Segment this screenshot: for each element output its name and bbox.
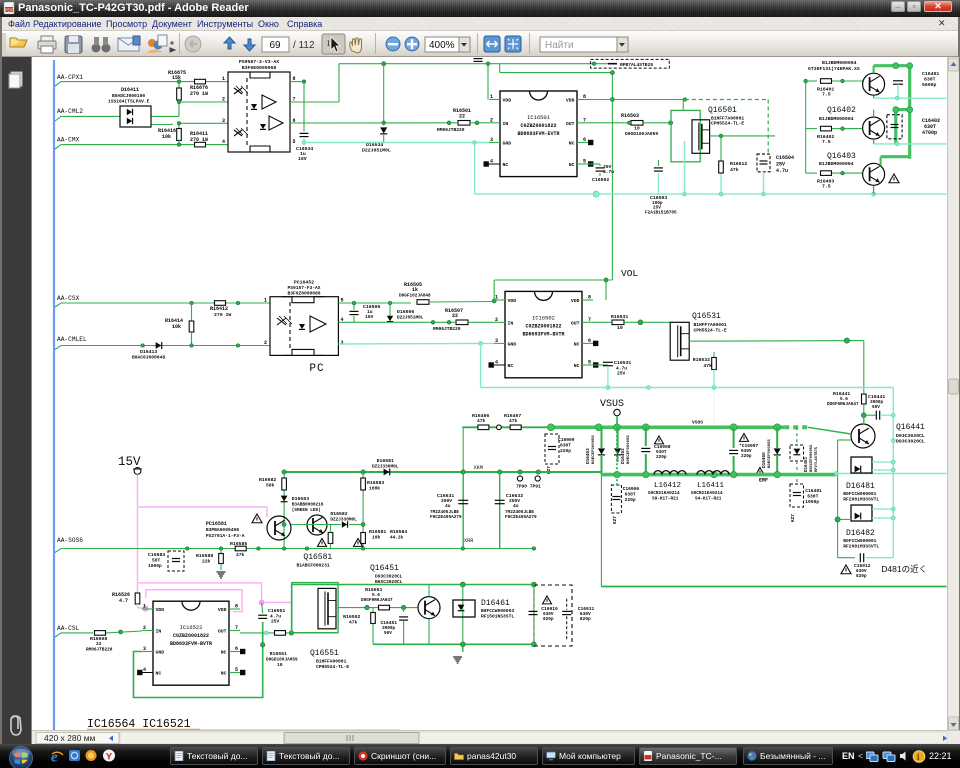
svg-text:47k: 47k xyxy=(349,620,358,626)
svg-text:7: 7 xyxy=(235,625,238,631)
svg-text:25V: 25V xyxy=(617,371,626,377)
svg-text:44.2k: 44.2k xyxy=(390,536,404,541)
svg-text:B6XC3020CL: B6XC3020CL xyxy=(375,579,403,585)
svg-text:IC16501: IC16501 xyxy=(527,115,550,121)
svg-text:GND: GND xyxy=(503,141,512,147)
svg-text:Найти: Найти xyxy=(545,40,574,51)
svg-text:D16411: D16411 xyxy=(121,87,139,93)
svg-text:7.5: 7.5 xyxy=(822,184,831,190)
svg-text:CPH5524-TL-E: CPH5524-TL-E xyxy=(711,121,744,127)
svg-text:D16481: D16481 xyxy=(846,482,875,491)
svg-text:D16581: D16581 xyxy=(377,458,394,464)
svg-text:4.7: 4.7 xyxy=(119,598,128,604)
svg-text:Y: Y xyxy=(106,752,113,763)
svg-text:B3PBA0000498: B3PBA0000498 xyxy=(206,527,239,533)
svg-text:8: 8 xyxy=(583,94,586,100)
svg-text:5600p: 5600p xyxy=(922,82,937,88)
svg-text:1: 1 xyxy=(222,76,225,82)
svg-text:630T: 630T xyxy=(807,494,818,500)
svg-text:4: 4 xyxy=(495,360,498,366)
svg-text:D22J051M0L: D22J051M0L xyxy=(397,316,424,321)
svg-text:B0FCCW000003: B0FCCW000003 xyxy=(481,608,514,614)
svg-text:22: 22 xyxy=(459,114,465,120)
svg-text:B1JBDM000004: B1JBDM000004 xyxy=(819,161,854,167)
svg-text:RPB7AL4STB25: RPB7AL4STB25 xyxy=(620,62,653,68)
svg-text:I: I xyxy=(327,39,330,48)
svg-text:5: 5 xyxy=(235,667,238,673)
svg-text:10k: 10k xyxy=(172,324,181,330)
svg-text:IC16564 IC16521: IC16564 IC16521 xyxy=(87,718,191,730)
svg-text:B0ECEF000055: B0ECEF000055 xyxy=(810,444,814,472)
svg-text:D0GD100JA059: D0GD100JA059 xyxy=(625,131,658,137)
svg-text:CPH5524-TL-E: CPH5524-TL-E xyxy=(694,328,727,334)
svg-text:270 1W: 270 1W xyxy=(190,91,208,97)
svg-text:1: 1 xyxy=(143,604,146,610)
svg-text:OUT: OUT xyxy=(218,629,227,635)
svg-text:VDD: VDD xyxy=(218,607,227,613)
svg-text:R16581: R16581 xyxy=(369,529,386,535)
svg-text:D93C3020CL: D93C3020CL xyxy=(896,439,925,445)
svg-text:R16582: R16582 xyxy=(259,477,276,483)
svg-text:25V: 25V xyxy=(776,162,785,168)
svg-text:B0ECEF000055: B0ECEF000055 xyxy=(768,439,772,468)
svg-text:Q16402: Q16402 xyxy=(827,106,856,115)
svg-text:D481の近く: D481の近く xyxy=(881,564,927,574)
svg-text:6: 6 xyxy=(588,338,591,344)
svg-text:VSUS: VSUS xyxy=(692,420,703,426)
svg-text:50T: 50T xyxy=(152,558,161,564)
svg-text:R16532: R16532 xyxy=(693,357,710,363)
svg-text:AA-SOS6: AA-SOS6 xyxy=(57,537,83,544)
svg-text:C16909: C16909 xyxy=(558,437,575,443)
svg-text:NC: NC xyxy=(574,363,580,369)
svg-text:G0CR21KA0214: G0CR21KA0214 xyxy=(691,491,723,496)
svg-text:S4-K17-R21: S4-K17-R21 xyxy=(695,497,722,502)
svg-text:PS2701A-1-F3-A: PS2701A-1-F3-A xyxy=(206,533,245,539)
svg-text:AA-CSL: AA-CSL xyxy=(57,625,80,632)
svg-text:D16506: D16506 xyxy=(397,309,414,315)
svg-text:7P90 7P91: 7P90 7P91 xyxy=(516,484,541,490)
svg-text:Q16531: Q16531 xyxy=(692,312,721,321)
svg-text:(GREEN LED): (GREEN LED) xyxy=(292,508,321,513)
svg-text:220p: 220p xyxy=(656,455,667,460)
svg-text:4: 4 xyxy=(490,159,493,165)
svg-text:820p: 820p xyxy=(856,574,867,579)
svg-text:R16588: R16588 xyxy=(196,553,213,559)
svg-text:AA-CMLEL: AA-CMLEL xyxy=(57,336,87,343)
svg-text:AA-CSX: AA-CSX xyxy=(57,295,80,302)
svg-text:NC: NC xyxy=(221,671,227,677)
svg-text:DZ2J330M0L: DZ2J330M0L xyxy=(372,465,399,470)
svg-text:F2A1B151B705: F2A1B151B705 xyxy=(645,211,677,216)
svg-text:7: 7 xyxy=(588,317,591,323)
svg-text:3: 3 xyxy=(222,118,225,124)
svg-text:R16583: R16583 xyxy=(367,480,384,486)
svg-text:Q16451: Q16451 xyxy=(370,564,399,573)
svg-text:B1JBDM000004: B1JBDM000004 xyxy=(819,116,854,122)
svg-text:OUT: OUT xyxy=(566,121,575,127)
svg-text:L16412: L16412 xyxy=(654,482,681,490)
svg-text:B3F6E0000058: B3F6E0000058 xyxy=(242,65,277,71)
svg-text:GND: GND xyxy=(156,650,165,656)
svg-text:AA-CPX1: AA-CPX1 xyxy=(57,74,83,81)
svg-text:GND: GND xyxy=(508,341,517,347)
svg-text:AA-CML2: AA-CML2 xyxy=(57,108,83,115)
svg-text:C16504: C16504 xyxy=(776,155,794,161)
svg-text:L16411: L16411 xyxy=(697,482,725,490)
svg-text:BD8693FVM-BVTR: BD8693FVM-BVTR xyxy=(170,641,212,647)
svg-text:630T: 630T xyxy=(625,492,636,498)
svg-text:PS9587-2-V3-AX: PS9587-2-V3-AX xyxy=(239,59,279,65)
svg-text:220p: 220p xyxy=(741,454,752,459)
svg-text:PC16581: PC16581 xyxy=(206,521,227,527)
svg-text:3: 3 xyxy=(495,338,498,344)
svg-text:RM06JTB220: RM06JTB220 xyxy=(86,648,113,653)
svg-text:10k: 10k xyxy=(162,134,171,140)
svg-text:PDF: PDF xyxy=(5,7,14,12)
svg-text:6: 6 xyxy=(583,137,586,143)
svg-text:D16583: D16583 xyxy=(292,496,309,502)
svg-text:NC: NC xyxy=(503,162,509,168)
svg-text:10: 10 xyxy=(634,126,640,132)
svg-text:IN: IN xyxy=(503,121,509,127)
svg-text:4u: 4u xyxy=(513,503,519,509)
svg-text:B3ABB0000210: B3ABB0000210 xyxy=(292,503,324,508)
svg-text:S9-K17-R21: S9-K17-R21 xyxy=(652,497,679,502)
svg-text:16V: 16V xyxy=(298,156,307,162)
svg-text:1: 1 xyxy=(495,295,498,301)
svg-text:D0GD100JA059: D0GD100JA059 xyxy=(266,658,298,663)
svg-text:C16583: C16583 xyxy=(148,552,165,558)
svg-text:4u: 4u xyxy=(445,503,451,509)
svg-text:420 x 280 мм: 420 x 280 мм xyxy=(44,733,96,743)
svg-text:1k: 1k xyxy=(412,287,418,293)
svg-text:RM06JTB220: RM06JTB220 xyxy=(437,127,465,133)
svg-text:NC: NC xyxy=(156,671,162,677)
svg-text:PS9157-F3-AX: PS9157-F3-AX xyxy=(287,285,320,291)
svg-text:C16551: C16551 xyxy=(268,608,285,614)
svg-text:R16552: R16552 xyxy=(343,614,360,620)
svg-text:4: 4 xyxy=(143,667,146,673)
svg-text:270 1W: 270 1W xyxy=(190,137,208,143)
svg-text:D22J051M0L: D22J051M0L xyxy=(362,148,391,154)
svg-text:VDD: VDD xyxy=(156,607,165,613)
svg-text:Q16403: Q16403 xyxy=(827,152,856,161)
svg-text:7.5: 7.5 xyxy=(822,92,831,98)
svg-text:IN: IN xyxy=(508,320,514,326)
svg-text:47k: 47k xyxy=(703,363,712,369)
svg-text:B0FCCW000001: B0FCCW000001 xyxy=(843,538,876,544)
svg-text:AA-CMX: AA-CMX xyxy=(57,137,80,144)
svg-text:8: 8 xyxy=(235,604,238,610)
svg-text:R16585: R16585 xyxy=(230,541,247,547)
svg-text:B1ABCF000231: B1ABCF000231 xyxy=(297,563,330,569)
svg-text:B0FCCW000001: B0FCCW000001 xyxy=(843,491,876,497)
svg-text:Q16441: Q16441 xyxy=(896,423,925,432)
svg-text:22k: 22k xyxy=(202,559,211,565)
svg-text:2: 2 xyxy=(264,340,267,346)
svg-text:220p: 220p xyxy=(560,448,571,454)
svg-text:RF1501NS3STL: RF1501NS3STL xyxy=(481,614,514,620)
svg-text:GT30F131(74KPAK.XS: GT30F131(74KPAK.XS xyxy=(808,66,860,72)
svg-text:KZ7: KZ7 xyxy=(613,516,618,524)
svg-text:G0CR21KA0214: G0CR21KA0214 xyxy=(648,491,680,496)
svg-text:4: 4 xyxy=(222,139,225,145)
svg-text:RFVTLASTB75: RFVTLASTB75 xyxy=(815,446,819,472)
svg-text:D16582: D16582 xyxy=(330,511,347,517)
svg-text:D93C3020CL: D93C3020CL xyxy=(896,433,925,439)
svg-text:/ 112: / 112 xyxy=(293,40,315,51)
svg-text:D16482: D16482 xyxy=(846,529,875,538)
svg-text:Q16581: Q16581 xyxy=(303,553,332,562)
svg-text:NC: NC xyxy=(221,650,227,656)
svg-text:XRR: XRR xyxy=(464,538,473,544)
svg-text:R16512: R16512 xyxy=(730,161,747,167)
svg-text:400%: 400% xyxy=(429,40,455,51)
svg-text:DZ2J330M0L: DZ2J330M0L xyxy=(330,518,357,523)
svg-text:D16452: D16452 xyxy=(621,448,626,464)
svg-text:1SS164(TSLPAV.E: 1SS164(TSLPAV.E xyxy=(108,99,150,105)
svg-text:C16906: C16906 xyxy=(623,486,640,492)
svg-text:5: 5 xyxy=(588,360,591,366)
svg-text:CPH5524-TL-E: CPH5524-TL-E xyxy=(316,664,349,670)
svg-text:5: 5 xyxy=(293,139,296,145)
svg-text:C16531: C16531 xyxy=(614,360,631,366)
svg-text:ERF: ERF xyxy=(759,478,768,484)
svg-text:RF2001M3SSVTL: RF2001M3SSVTL xyxy=(843,497,879,503)
svg-text:D93C3020CL: D93C3020CL xyxy=(375,574,403,580)
svg-text:1000p: 1000p xyxy=(805,499,819,505)
svg-text:NC: NC xyxy=(569,141,575,147)
svg-text:69: 69 xyxy=(269,40,281,51)
svg-text:RM06JTB220: RM06JTB220 xyxy=(433,326,461,332)
svg-text:15V: 15V xyxy=(118,455,141,469)
svg-text:2: 2 xyxy=(490,117,493,123)
svg-text:DOGF5R6JA047: DOGF5R6JA047 xyxy=(827,402,859,407)
svg-text:D16453: D16453 xyxy=(586,448,591,464)
svg-text:KZ7: KZ7 xyxy=(791,514,796,522)
svg-text:5: 5 xyxy=(583,159,586,165)
svg-text:3: 3 xyxy=(143,646,146,652)
svg-text:4.7u: 4.7u xyxy=(603,169,614,175)
svg-text:56k: 56k xyxy=(266,483,275,489)
svg-text:1000p: 1000p xyxy=(148,563,162,569)
svg-text:C0ZBZ0001822: C0ZBZ0001822 xyxy=(520,123,556,129)
svg-text:R16551: R16551 xyxy=(270,651,287,657)
svg-text:820p: 820p xyxy=(580,616,591,622)
svg-text:BD8693FVM-EVTR: BD8693FVM-EVTR xyxy=(517,131,559,137)
svg-text:NC: NC xyxy=(574,341,580,347)
svg-text:47k: 47k xyxy=(477,418,486,424)
svg-text:7: 7 xyxy=(583,117,586,123)
svg-text:50V: 50V xyxy=(872,405,880,410)
svg-text:VDD: VDD xyxy=(508,298,517,304)
svg-text:NC: NC xyxy=(569,162,575,168)
svg-text:15k: 15k xyxy=(172,75,181,81)
svg-text:2: 2 xyxy=(222,97,225,103)
svg-text:R16412: R16412 xyxy=(210,306,228,312)
svg-text:Q16551: Q16551 xyxy=(310,649,339,658)
svg-text:IN: IN xyxy=(156,629,162,635)
svg-text:PC16452: PC16452 xyxy=(294,280,314,286)
svg-text:PC: PC xyxy=(309,363,324,375)
svg-text:D0GF102JA048: D0GF102JA048 xyxy=(399,294,431,299)
svg-text:D16413: D16413 xyxy=(140,349,157,355)
svg-text:10: 10 xyxy=(617,325,623,331)
svg-text:VSUS: VSUS xyxy=(600,399,624,410)
svg-text:7.5: 7.5 xyxy=(822,139,831,145)
svg-text:RF2001M3SSVTL: RF2001M3SSVTL xyxy=(843,544,879,550)
svg-text:R16531: R16531 xyxy=(611,314,628,320)
svg-text:OUT: OUT xyxy=(571,320,580,326)
svg-text:Q16501: Q16501 xyxy=(708,106,737,115)
svg-text:1: 1 xyxy=(264,298,267,304)
svg-text:B1HFFA00001: B1HFFA00001 xyxy=(316,659,347,665)
svg-text:IC16522: IC16522 xyxy=(180,625,203,631)
svg-text:22: 22 xyxy=(452,313,458,319)
svg-text:630T: 630T xyxy=(560,443,571,449)
svg-text:22: 22 xyxy=(96,641,102,647)
svg-text:6: 6 xyxy=(235,646,238,652)
svg-text:B1HFF7A00001: B1HFF7A00001 xyxy=(694,322,727,328)
svg-text:2: 2 xyxy=(495,317,498,323)
svg-text:D16461: D16461 xyxy=(481,599,510,608)
svg-text:270 1W: 270 1W xyxy=(214,312,231,318)
svg-text:C0ZBZ0001822: C0ZBZ0001822 xyxy=(173,633,209,639)
svg-text:3: 3 xyxy=(490,137,493,143)
svg-text:D16450: D16450 xyxy=(762,452,767,468)
svg-text:3: 3 xyxy=(341,340,344,346)
svg-text:XKM: XKM xyxy=(474,465,483,471)
svg-text:VOL: VOL xyxy=(621,268,638,279)
svg-text:F0C2E405A279: F0C2E405A279 xyxy=(505,515,537,520)
svg-text:C16401: C16401 xyxy=(922,71,939,77)
svg-text:D16451: D16451 xyxy=(805,456,809,472)
svg-text:B0ADCJ000100: B0ADCJ000100 xyxy=(112,93,145,99)
svg-text:B1JBDM000004: B1JBDM000004 xyxy=(822,60,857,66)
svg-text:BD8693FVM-BVTR: BD8693FVM-BVTR xyxy=(522,331,564,337)
svg-text:47k: 47k xyxy=(509,418,518,424)
svg-text:B0AC0J000048: B0AC0J000048 xyxy=(132,355,165,361)
svg-text:25V: 25V xyxy=(271,619,280,625)
svg-text:D0GF9R6JA047: D0GF9R6JA047 xyxy=(361,598,393,603)
svg-text:4.7u: 4.7u xyxy=(776,168,788,174)
svg-text:VDD: VDD xyxy=(571,298,580,304)
svg-text:50V: 50V xyxy=(384,631,392,636)
svg-text:630T: 630T xyxy=(924,77,936,83)
svg-text:820p: 820p xyxy=(543,617,554,622)
svg-text:R16584: R16584 xyxy=(390,529,407,535)
svg-text:F0C2E405A279: F0C2E405A279 xyxy=(430,515,462,520)
svg-text:NC: NC xyxy=(508,363,514,369)
svg-text:C0ZBZ0001822: C0ZBZ0001822 xyxy=(525,323,561,329)
svg-text:47k: 47k xyxy=(730,167,739,173)
svg-text:100k: 100k xyxy=(369,486,380,492)
svg-text:B0ECEF000055: B0ECEF000055 xyxy=(592,435,596,464)
svg-text:220p: 220p xyxy=(625,497,636,503)
svg-text:C16502: C16502 xyxy=(592,177,609,183)
svg-text:VDD: VDD xyxy=(503,98,512,104)
svg-text:C16481: C16481 xyxy=(805,488,822,494)
svg-text:10k: 10k xyxy=(372,535,381,541)
svg-text:IC16502: IC16502 xyxy=(532,315,555,321)
svg-text:16V: 16V xyxy=(365,314,374,320)
svg-text:2: 2 xyxy=(143,625,146,631)
svg-text:10: 10 xyxy=(277,662,283,668)
svg-text:1: 1 xyxy=(490,94,493,100)
svg-text:B3F0Z0000080: B3F0Z0000080 xyxy=(287,291,320,297)
svg-text:4700p: 4700p xyxy=(922,130,937,136)
svg-text:R16503: R16503 xyxy=(621,113,639,119)
svg-text:8: 8 xyxy=(588,295,591,301)
svg-text:VDD: VDD xyxy=(566,98,575,104)
svg-text:B0ECEF000055: B0ECEF000055 xyxy=(627,435,631,464)
svg-text:47k: 47k xyxy=(236,552,245,558)
